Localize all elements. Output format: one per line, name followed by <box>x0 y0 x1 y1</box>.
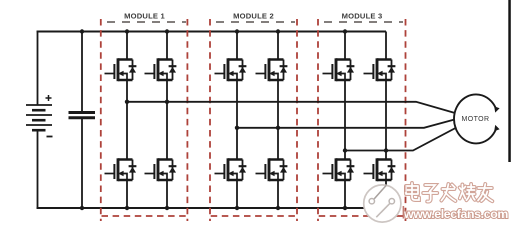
wire: column C2 mid segment (upper FET source to lower FET drain) <box>385 80 387 160</box>
transistor Q9 (module3 top-left) <box>323 58 355 81</box>
module 1 top gray dashed line <box>107 21 186 23</box>
wire: column C1 drain segment (top bus to upper FET) <box>344 32 346 61</box>
junction: capacitor / top bus <box>80 29 84 33</box>
transistor Q6 (module2 top-right) <box>256 58 288 81</box>
transistor Q4 (module1 bottom-right) <box>145 158 177 181</box>
junction: column B2 / phase B <box>276 126 280 130</box>
junction: column C1 / phase C <box>343 148 347 152</box>
junction: column B2 / bottom bus <box>276 206 280 210</box>
wire: column B2 mid segment (upper FET source to lower FET drain) <box>277 80 279 160</box>
junction: column B1 / phase B <box>235 126 239 130</box>
transistor Q8 (module2 bottom-right) <box>256 158 288 181</box>
wire: column B2 drain segment (top bus to upper FET) <box>277 32 279 61</box>
wire: column B2 source segment (lower FET to bottom bus) <box>277 180 279 208</box>
wire: column C2 drain segment (top bus to upper FET) <box>385 32 387 61</box>
junction: column B1 / bottom bus <box>235 206 239 210</box>
wire: column B1 mid segment (upper FET source to lower FET drain) <box>236 80 238 160</box>
phase A wire to motor <box>127 102 455 113</box>
svg-text:MODULE 1: MODULE 1 <box>124 11 165 20</box>
module 3 top gray dashed line <box>324 21 403 23</box>
wire: column A2 drain segment (top bus to upper FET) <box>166 32 168 61</box>
transistor Q12 (module3 bottom-right) <box>364 158 396 181</box>
wire: column C2 source segment (lower FET to bottom bus) <box>385 180 387 208</box>
junction: column A2 / top bus <box>165 29 169 33</box>
junction: column A1 / bottom bus <box>125 206 129 210</box>
module 1 box (red dashed) <box>101 19 188 221</box>
wire: column B1 source segment (lower FET to bottom bus) <box>236 180 238 208</box>
wire: column B1 drain segment (top bus to upper FET) <box>236 32 238 61</box>
junction: column A1 / top bus <box>125 29 129 33</box>
transistor Q5 (module2 top-left) <box>215 58 247 81</box>
module 3 box (red dashed) <box>318 19 406 221</box>
wire: column A1 drain segment (top bus to upper FET) <box>126 32 128 61</box>
watermark logo circle <box>364 185 401 222</box>
watermark chinese text (stylized strokes) <box>406 183 492 202</box>
wire: left vertical (battery branch upper) <box>37 31 39 105</box>
wire: bottom DC bus <box>37 207 386 209</box>
junction: column B2 / top bus <box>276 29 280 33</box>
transistor Q11 (module3 bottom-left) <box>323 158 355 181</box>
wire: column A1 mid segment (upper FET source to lower FET drain) <box>126 80 128 160</box>
junction: column C1 / bottom bus <box>343 206 347 210</box>
junction: capacitor / bottom bus <box>80 206 84 210</box>
module 2 top gray dashed line <box>216 21 295 23</box>
wire: column C1 source segment (lower FET to bottom bus) <box>344 180 346 208</box>
transistor Q2 (module1 top-right) <box>145 58 177 81</box>
phase B wire to motor <box>237 120 455 128</box>
svg-text:MODULE 2: MODULE 2 <box>233 11 274 20</box>
junction: column A2 / phase A <box>165 100 169 104</box>
wire: column A2 source segment (lower FET to bottom bus) <box>166 180 168 208</box>
capacitor C1 <box>69 31 96 209</box>
wire: column C1 mid segment (upper FET source to lower FET drain) <box>344 80 346 160</box>
transistor Q7 (module2 bottom-left) <box>215 158 247 181</box>
junction: column C2 / phase C <box>384 148 388 152</box>
watermark url bracket <box>402 206 404 219</box>
transistor Q3 (module1 bottom-left) <box>105 158 137 181</box>
module 2 box (red dashed) <box>210 19 297 221</box>
wire: column A2 mid segment (upper FET source to lower FET drain) <box>166 80 168 160</box>
svg-text:MODULE 3: MODULE 3 <box>342 11 383 20</box>
wire: column A1 source segment (lower FET to bottom bus) <box>126 180 128 208</box>
motor M1 <box>454 94 500 143</box>
wire: top DC bus <box>37 31 386 33</box>
svg-text:MOTOR: MOTOR <box>462 116 490 123</box>
right edge black bar <box>508 0 511 162</box>
junction: column A2 / bottom bus <box>165 206 169 210</box>
svg-text:www.elecfans.com: www.elecfans.com <box>403 207 508 221</box>
junction: column C1 / top bus <box>343 29 347 33</box>
battery BT1 <box>26 95 53 137</box>
transistor Q1 (module1 top-left) <box>105 58 137 81</box>
transistor Q10 (module3 top-right) <box>364 58 396 81</box>
junction: column B1 / top bus <box>235 29 239 33</box>
junction: column A1 / phase A <box>125 100 129 104</box>
phase C wire to motor <box>345 128 457 151</box>
wire: left vertical (battery branch lower) <box>37 131 39 209</box>
